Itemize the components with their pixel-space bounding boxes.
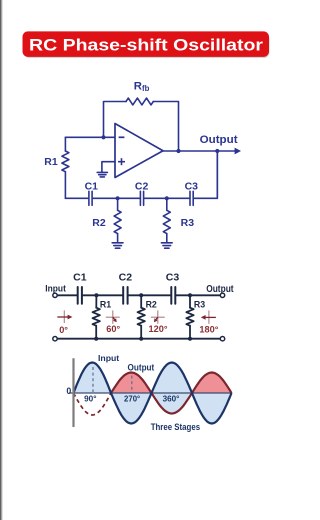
wire bottom rail [57, 338, 220, 340]
node R3 bottom [188, 337, 192, 341]
ground [112, 242, 123, 244]
wave fill input lobe1 [74, 363, 112, 394]
op-amp minus pin [119, 136, 125, 138]
capacitor C2 [139, 191, 141, 205]
wire inverting input [65, 136, 115, 138]
resistor R3 [166, 198, 168, 210]
wave fill output lobe2 [111, 373, 152, 394]
resistor R2 [117, 198, 119, 210]
svg-text:R2: R2 [146, 299, 157, 309]
wire output [163, 150, 237, 152]
svg-text:C2: C2 [135, 180, 149, 192]
resistor R1 [64, 137, 66, 151]
node R3 top [188, 293, 192, 297]
capacitor C3 [170, 287, 172, 304]
svg-text:90°: 90° [84, 393, 97, 403]
wire [129, 294, 171, 296]
svg-text:120°: 120° [148, 324, 167, 334]
svg-text:0°: 0° [59, 325, 68, 335]
vertical axis [72, 358, 74, 427]
node R1 top [94, 293, 98, 297]
op-amp plus pin [118, 158, 125, 165]
arrowhead output [235, 148, 241, 155]
zero line [69, 392, 232, 394]
svg-text:C1: C1 [73, 271, 87, 283]
svg-text:60°: 60° [106, 324, 120, 334]
svg-text:Output: Output [206, 284, 234, 295]
phase marker 180 deg [199, 310, 218, 334]
capacitor C1 [77, 287, 79, 304]
wire [93, 197, 140, 199]
svg-text:C3: C3 [166, 271, 180, 283]
wire [176, 294, 220, 296]
phase marker 120 deg [148, 310, 167, 334]
node E (R3 top) [165, 196, 169, 200]
node R2 top [139, 293, 143, 297]
svg-text:R1: R1 [100, 299, 111, 309]
wave fill input lobe3 [152, 363, 193, 394]
capacitor C2 [122, 287, 124, 304]
capacitor C3 [189, 191, 191, 205]
svg-text:Output: Output [200, 134, 238, 146]
svg-text:360°: 360° [163, 393, 180, 403]
resistor R3 [189, 295, 191, 307]
ground [161, 242, 172, 244]
wire [83, 294, 123, 296]
wire feedback loop right [153, 102, 178, 152]
svg-text:R3: R3 [181, 217, 195, 229]
ground [97, 171, 107, 173]
svg-text:R1: R1 [44, 156, 58, 168]
svg-text:R3: R3 [194, 299, 205, 309]
node A (inverting input) [101, 135, 105, 139]
wire output tap [216, 151, 218, 198]
phase marker 60 deg [106, 310, 121, 334]
phase marker 0 deg [57, 310, 72, 334]
dashed guide at output peak [131, 376, 133, 393]
node D (R2 top) [116, 196, 120, 200]
dashed guide at input peak [92, 367, 94, 392]
terminal input top [53, 293, 57, 297]
svg-text:RC Phase-shift Oscillator: RC Phase-shift Oscillator [29, 35, 263, 54]
title banner [23, 31, 270, 58]
terminal input bottom [53, 337, 57, 341]
wire [144, 197, 189, 199]
svg-text:C2: C2 [119, 271, 133, 283]
resistor Rfb [126, 98, 153, 105]
node B (feedback/output) [176, 149, 180, 153]
wire feedback loop left [104, 102, 127, 138]
wave fill input lobe4 [192, 393, 232, 424]
terminal output bottom [220, 337, 224, 341]
svg-text:270°: 270° [124, 393, 141, 403]
terminal output top [220, 293, 224, 297]
input wave [74, 363, 232, 424]
output wave dashed lobe [74, 393, 112, 415]
svg-text:Input: Input [98, 353, 119, 363]
svg-text:Input: Input [45, 284, 66, 294]
svg-text:Three Stages: Three Stages [151, 422, 200, 432]
wave fill input lobe2 [111, 393, 152, 424]
wave fill output lobe4 [192, 373, 232, 394]
wire non-inverting input [102, 162, 115, 172]
node R2 bottom [139, 337, 143, 341]
node C (output tap) [215, 149, 219, 153]
node R1 bottom [94, 337, 98, 341]
svg-text:180°: 180° [199, 324, 218, 334]
wire input [57, 294, 77, 296]
svg-text:0: 0 [66, 386, 71, 396]
wave fill output lobe3 [152, 393, 193, 414]
svg-text:C1: C1 [85, 180, 99, 192]
resistor R1 [95, 295, 97, 307]
output wave [111, 373, 232, 414]
capacitor C1 [88, 191, 90, 205]
resistor R2 [140, 295, 142, 307]
svg-text:R2: R2 [92, 217, 106, 229]
op-amp U1 [115, 124, 163, 178]
svg-text:Output: Output [128, 363, 155, 373]
svg-text:C3: C3 [185, 180, 199, 192]
wire [194, 151, 217, 198]
wire bottom rail [65, 197, 88, 199]
